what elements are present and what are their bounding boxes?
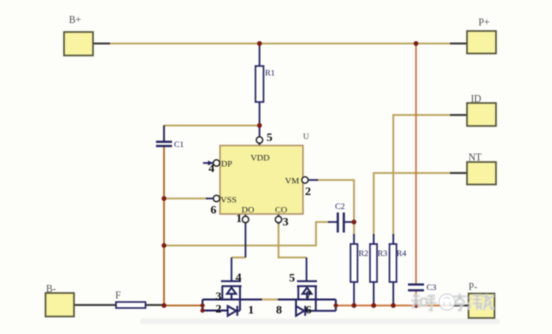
svg-text:B-: B- [46,284,56,295]
svg-text:C2: C2 [335,201,345,211]
svg-text:R3: R3 [378,248,388,258]
svg-text:6: 6 [211,203,217,217]
svg-text:2: 2 [305,184,311,198]
svg-text:C3: C3 [427,282,437,292]
svg-text:R4: R4 [397,248,408,258]
svg-text:5: 5 [289,271,295,285]
svg-text:DP: DP [221,159,232,169]
svg-text:P+: P+ [478,18,490,29]
svg-text:5: 5 [267,130,273,144]
svg-text:2: 2 [216,302,222,316]
svg-text:F: F [115,291,121,302]
svg-text:C1: C1 [174,139,184,149]
svg-text:R2: R2 [359,248,369,258]
svg-text:U: U [303,131,309,141]
svg-text:7: 7 [306,291,311,302]
svg-text:VSS: VSS [221,195,237,205]
svg-text:3: 3 [283,215,289,229]
svg-text:4: 4 [236,270,242,284]
svg-text:6: 6 [306,303,312,317]
svg-text:ID: ID [471,94,482,105]
svg-text:CO: CO [275,205,287,215]
svg-text:1: 1 [248,303,254,317]
svg-text:1: 1 [236,211,242,225]
svg-text:R1: R1 [265,68,275,78]
svg-text:NT: NT [468,153,481,164]
svg-text:8: 8 [276,303,282,317]
svg-text:VM: VM [285,176,299,186]
svg-text:P-: P- [469,282,478,293]
svg-text:4: 4 [209,161,215,175]
svg-text:VDD: VDD [251,153,270,163]
svg-text:B+: B+ [69,15,82,26]
svg-text:DO: DO [242,205,255,215]
